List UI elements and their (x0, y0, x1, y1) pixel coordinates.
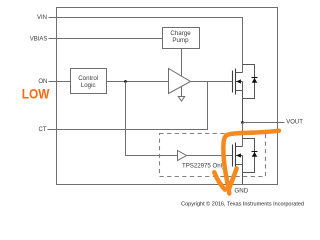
svg-text:ON: ON (38, 79, 47, 85)
Q1 body arrow (236, 79, 241, 83)
svg-text:CT: CT (39, 127, 47, 133)
junction dot VOUT node (241, 121, 244, 124)
svg-text:TPS22975 Only: TPS22975 Only (182, 163, 226, 170)
svg-text:Charge: Charge (170, 30, 191, 37)
IC boundary box (57, 8, 278, 185)
wire driver to Q2 gate (187, 155, 233, 157)
annotation orange arrow (214, 131, 279, 194)
control logic block (71, 69, 107, 94)
wire charge pump to driver (181, 49, 183, 76)
wire ON to control logic (49, 81, 71, 83)
svg-text:LOW: LOW (22, 86, 50, 102)
wire driver to Q1 gate (191, 81, 233, 83)
svg-text:GND: GND (234, 188, 248, 195)
charge pump block (163, 28, 200, 49)
svg-text:VOUT: VOUT (286, 119, 303, 125)
Q2 body diode branch (243, 139, 255, 173)
wire VOUT node to Q2 drain (242, 123, 244, 147)
wire VBIAS to charge pump (49, 38, 163, 40)
svg-text:Copyright © 2016, Texas Instru: Copyright © 2016, Texas Instruments Inco… (181, 200, 304, 207)
Q2 body arrow (236, 153, 241, 157)
junction dot node A (124, 80, 127, 83)
Q1 body diode branch (243, 65, 255, 99)
svg-text:Control: Control (78, 75, 98, 82)
dashed region TPS22975 only (160, 134, 266, 177)
op-amp U1 gate driver (169, 69, 191, 94)
wire node A to lower driver input (126, 82, 178, 156)
transistor Q2 pulldown FET (233, 143, 236, 169)
wire VOUT (243, 122, 285, 124)
svg-text:Logic: Logic (81, 82, 96, 89)
Q2 body diode D2 (252, 151, 258, 153)
wire control logic to driver (107, 81, 169, 83)
ground symbol under driver (181, 87, 183, 97)
Q1 body diode D1 (252, 77, 258, 79)
transistor Q1 pass FET (233, 69, 236, 95)
svg-text:VBIAS: VBIAS (30, 36, 48, 42)
svg-text:Pump: Pump (172, 37, 189, 44)
op-amp U2 QOD driver (178, 151, 187, 161)
svg-text:VIN: VIN (37, 15, 47, 21)
wire CT to gate drive node (48, 82, 208, 130)
wire VIN rail to Q1 drain (49, 18, 243, 73)
